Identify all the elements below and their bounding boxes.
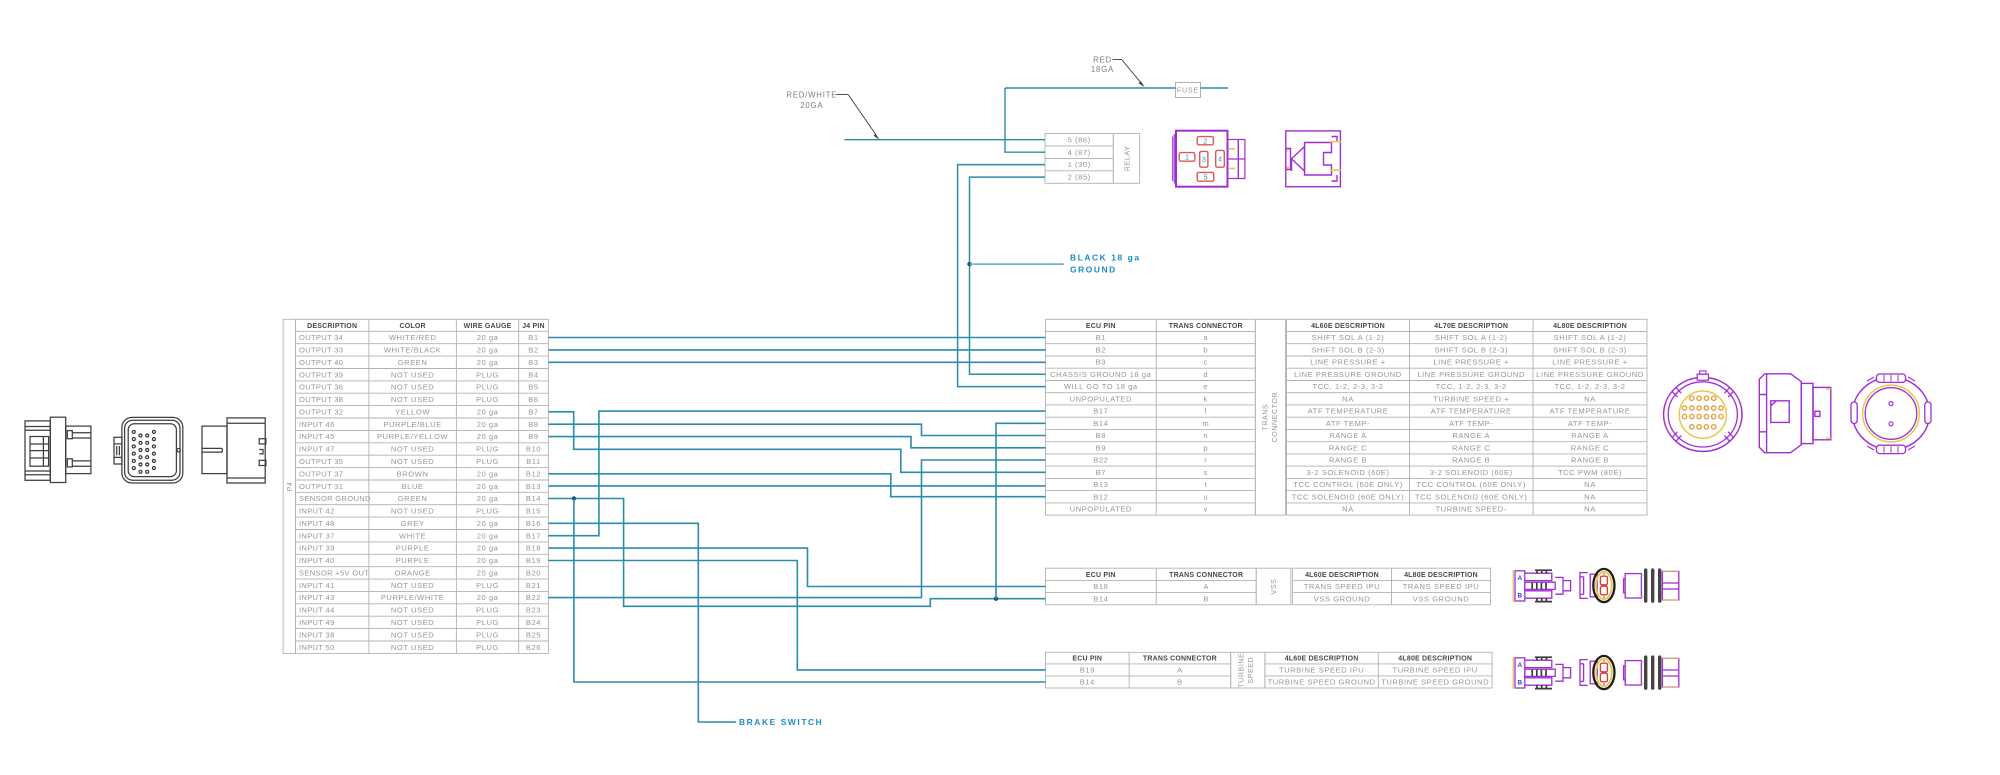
svg-text:B2: B2 [1096, 346, 1106, 355]
svg-text:OUTPUT 33: OUTPUT 33 [299, 346, 343, 355]
label RED/WHITE 20GA with leader arrow [786, 91, 879, 140]
wire B16 INPUT48 to brake switch [548, 523, 736, 722]
svg-text:PLUG: PLUG [476, 643, 499, 652]
svg-text:TCC, 1-2, 2-3, 3-2: TCC, 1-2, 2-3, 3-2 [1436, 382, 1507, 391]
svg-text:20 ga: 20 ga [477, 531, 499, 540]
svg-text:TCC SOLENOID (60E ONLY): TCC SOLENOID (60E ONLY) [1415, 492, 1528, 501]
svg-text:20 ga: 20 ga [477, 494, 499, 503]
fuse F1 [1176, 83, 1201, 98]
wire B1 OUTPUT34 to trans pin a [548, 337, 1045, 339]
svg-text:20 ga: 20 ga [477, 593, 499, 602]
svg-text:NOT USED: NOT USED [391, 630, 435, 639]
svg-text:PURPLE/WHITE: PURPLE/WHITE [381, 593, 445, 602]
svg-text:3-2 SOLENOID (60E): 3-2 SOLENOID (60E) [1430, 468, 1513, 477]
svg-text:ECU PIN: ECU PIN [1086, 572, 1116, 579]
svg-text:OUTPUT 38: OUTPUT 38 [299, 395, 343, 404]
svg-text:k: k [1204, 394, 1208, 403]
svg-text:BLACK 18 ga: BLACK 18 ga [1070, 252, 1141, 262]
label RED 18GA with leader arrow [1091, 55, 1145, 87]
svg-text:WIRE GAUGE: WIRE GAUGE [464, 323, 512, 330]
svg-text:B13: B13 [1093, 480, 1108, 489]
svg-text:3: 3 [1202, 155, 1206, 164]
svg-text:RANGE C: RANGE C [1452, 443, 1490, 452]
svg-text:RANGE A: RANGE A [1329, 431, 1367, 440]
table TURBINE SPEED connector [1046, 652, 1231, 688]
wire B2 OUTPUT33 to trans pin b [548, 349, 1045, 351]
svg-text:B22: B22 [526, 593, 541, 602]
svg-text:SENSOR GROUND: SENSOR GROUND [299, 494, 371, 503]
svg-text:FUSE: FUSE [1177, 88, 1199, 95]
rotated label cell TURBINE SPEED [1231, 652, 1265, 688]
svg-text:OUTPUT 31: OUTPUT 31 [299, 482, 343, 491]
svg-text:B18: B18 [1093, 582, 1108, 591]
svg-text:B5: B5 [528, 383, 538, 392]
label BLACK 18 ga GROUND [1070, 252, 1141, 274]
svg-text:1 (30): 1 (30) [1068, 160, 1091, 169]
svg-text:B: B [1177, 678, 1183, 687]
table ECU PIN / TRANS CONNECTOR (main trans connector) [1046, 319, 1256, 515]
svg-text:B3: B3 [1096, 358, 1106, 367]
svg-text:CHASSIS GROUND 18 ga: CHASSIS GROUND 18 ga [1050, 370, 1152, 379]
turbine speed sensor connector side view [1624, 655, 1679, 689]
svg-text:4L60E DESCRIPTION: 4L60E DESCRIPTION [1285, 656, 1359, 663]
svg-text:GREEN: GREEN [398, 494, 428, 503]
wire relay pin 1 (30) to ECU row e WILL GO TO 18 ga [958, 165, 1046, 387]
svg-text:LINE PRESSURE +: LINE PRESSURE + [1433, 358, 1509, 367]
connector J4 side view (left) [25, 417, 91, 482]
svg-text:OUTPUT 35: OUTPUT 35 [299, 457, 343, 466]
svg-text:LINE PRESSURE +: LINE PRESSURE + [1552, 358, 1628, 367]
svg-text:TRANS: TRANS [1260, 404, 1269, 431]
svg-text:m: m [1202, 419, 1209, 428]
svg-text:B12: B12 [1093, 492, 1108, 501]
svg-text:INPUT 37: INPUT 37 [299, 531, 335, 540]
svg-text:20 ga: 20 ga [477, 519, 499, 528]
svg-text:4L80E DESCRIPTION: 4L80E DESCRIPTION [1398, 656, 1472, 663]
wire RED 18ga fuse feed (to relay pin 4 87) [1005, 87, 1176, 89]
wire B14 branch up to trans pin m [996, 423, 1046, 598]
svg-text:SENSOR +5V OUT: SENSOR +5V OUT [299, 569, 369, 578]
svg-text:INPUT 41: INPUT 41 [299, 581, 335, 590]
svg-text:OUTPUT 36: OUTPUT 36 [299, 383, 343, 392]
VSS sensor connector rear view [1580, 569, 1615, 602]
svg-text:PLUG: PLUG [476, 370, 499, 379]
svg-text:WHITE/RED: WHITE/RED [389, 333, 437, 342]
svg-text:RANGE C: RANGE C [1329, 443, 1367, 452]
junction ground tap [967, 262, 971, 266]
svg-text:B1: B1 [528, 333, 538, 342]
svg-text:NOT USED: NOT USED [391, 445, 435, 454]
svg-text:TRANS SPEED IPU: TRANS SPEED IPU [1403, 582, 1480, 591]
svg-text:NOT USED: NOT USED [391, 581, 435, 590]
svg-text:p: p [1203, 443, 1208, 452]
svg-text:B23: B23 [526, 606, 541, 615]
junction B14 at VSS row [994, 597, 998, 601]
svg-text:2 (85): 2 (85) [1068, 173, 1091, 182]
svg-text:RANGE C: RANGE C [1571, 443, 1609, 452]
svg-text:INPUT 42: INPUT 42 [299, 507, 335, 516]
svg-text:INPUT 43: INPUT 43 [299, 593, 335, 602]
svg-text:B7: B7 [528, 407, 538, 416]
svg-text:DESCRIPTION: DESCRIPTION [307, 323, 357, 330]
svg-text:RANGE B: RANGE B [1452, 456, 1490, 465]
svg-text:20 ga: 20 ga [477, 346, 499, 355]
svg-text:BLUE: BLUE [402, 482, 424, 491]
wire fuse to battery stub [1201, 87, 1229, 89]
svg-text:B13: B13 [526, 482, 541, 491]
svg-text:B17: B17 [526, 531, 541, 540]
svg-text:B: B [1517, 592, 1522, 599]
svg-text:B17: B17 [1093, 407, 1108, 416]
svg-text:OUTPUT 39: OUTPUT 39 [299, 370, 343, 379]
svg-text:WHITE/BLACK: WHITE/BLACK [384, 346, 442, 355]
svg-text:SHIFT SOL A (1-2): SHIFT SOL A (1-2) [1435, 333, 1508, 342]
svg-text:UNPOPULATED: UNPOPULATED [1070, 505, 1132, 514]
svg-text:B26: B26 [526, 643, 541, 652]
svg-text:GROUND: GROUND [1070, 264, 1117, 274]
svg-text:PLUG: PLUG [476, 507, 499, 516]
svg-text:LINE PRESSURE +: LINE PRESSURE + [1310, 358, 1386, 367]
svg-text:ECU PIN: ECU PIN [1072, 656, 1102, 663]
svg-text:J4 PIN: J4 PIN [522, 323, 545, 330]
svg-text:TURBINE SPEED GROUND: TURBINE SPEED GROUND [1268, 678, 1376, 687]
svg-text:B8: B8 [1096, 431, 1106, 440]
svg-text:TURBINE SPEED +: TURBINE SPEED + [1433, 394, 1509, 403]
svg-text:BROWN: BROWN [397, 469, 429, 478]
svg-text:YELLOW: YELLOW [395, 407, 430, 416]
svg-text:PURPLE: PURPLE [396, 544, 430, 553]
svg-text:SHIFT SOL B (2-3): SHIFT SOL B (2-3) [1553, 346, 1627, 355]
table 4L60E / 4L70E / 4L80E descriptions [1287, 319, 1648, 515]
svg-text:e: e [1203, 382, 1208, 391]
svg-text:TURBINE SPEED GROUND: TURBINE SPEED GROUND [1381, 678, 1489, 687]
turbine speed sensor connector rear view [1580, 656, 1615, 689]
svg-text:NOT USED: NOT USED [391, 618, 435, 627]
wire B14 sensor ground main run to VSS pin B [548, 499, 1045, 607]
svg-text:PLUG: PLUG [476, 383, 499, 392]
svg-text:B9: B9 [1096, 443, 1106, 452]
svg-text:RED: RED [1093, 55, 1112, 64]
svg-text:u: u [1203, 492, 1208, 501]
svg-text:d: d [1203, 370, 1208, 379]
svg-text:20 ga: 20 ga [477, 544, 499, 553]
svg-text:PLUG: PLUG [476, 457, 499, 466]
svg-text:ATF TEMP-: ATF TEMP- [1449, 419, 1493, 428]
svg-text:NOT USED: NOT USED [391, 457, 435, 466]
relay label cell [1113, 134, 1139, 184]
svg-text:5 (86): 5 (86) [1068, 135, 1091, 144]
svg-text:20 ga: 20 ga [477, 469, 499, 478]
svg-text:ATF TEMPERATURE: ATF TEMPERATURE [1550, 407, 1631, 416]
connector table P4 (J4 pinout) [296, 319, 549, 653]
svg-text:B10: B10 [526, 445, 541, 454]
svg-text:INPUT 46: INPUT 46 [299, 420, 335, 429]
svg-text:B16: B16 [526, 519, 541, 528]
svg-text:v: v [1204, 505, 1208, 514]
wire RED/WHITE 20ga to relay pin 5 (86) [844, 139, 1045, 141]
trans connector side view [1759, 374, 1831, 453]
svg-text:4L60E DESCRIPTION: 4L60E DESCRIPTION [1311, 323, 1385, 330]
svg-text:GREY: GREY [401, 519, 425, 528]
svg-text:20 ga: 20 ga [477, 432, 499, 441]
svg-text:PLUG: PLUG [476, 630, 499, 639]
svg-text:ATF TEMP-: ATF TEMP- [1326, 419, 1370, 428]
svg-text:NA: NA [1584, 505, 1596, 514]
svg-text:l: l [1205, 407, 1207, 416]
table TURBINE SPEED 4L60E/4L80E descriptions [1265, 652, 1492, 688]
svg-text:20 ga: 20 ga [477, 556, 499, 565]
wire B13 OUTPUT31 to trans pin t [548, 485, 1045, 487]
svg-text:VSS GROUND: VSS GROUND [1314, 594, 1371, 603]
svg-text:WILL GO TO 18 ga: WILL GO TO 18 ga [1064, 382, 1138, 391]
svg-text:INPUT 44: INPUT 44 [299, 606, 335, 615]
svg-text:B19: B19 [1080, 666, 1095, 675]
svg-text:NOT USED: NOT USED [391, 383, 435, 392]
relay socket face view [1173, 131, 1245, 187]
svg-text:INPUT 45: INPUT 45 [299, 432, 335, 441]
svg-text:TCC SOLENOID (60E ONLY): TCC SOLENOID (60E ONLY) [1292, 492, 1405, 501]
svg-text:LINE PRESSURE GROUND: LINE PRESSURE GROUND [1417, 370, 1525, 379]
svg-text:4: 4 [1218, 155, 1222, 164]
svg-text:a: a [1203, 333, 1208, 342]
svg-text:ATF TEMPERATURE: ATF TEMPERATURE [1308, 407, 1389, 416]
connector J4 mating face view (24-pin) [114, 417, 183, 483]
svg-text:4 (87): 4 (87) [1068, 148, 1091, 157]
VSS sensor connector side view [1624, 568, 1679, 602]
svg-text:INPUT 49: INPUT 49 [299, 618, 335, 627]
svg-text:4L80E DESCRIPTION: 4L80E DESCRIPTION [1404, 572, 1478, 579]
svg-text:TURBINE: TURBINE [1237, 653, 1246, 688]
rotated label cell VSS [1256, 568, 1291, 605]
svg-text:4L80E DESCRIPTION: 4L80E DESCRIPTION [1553, 323, 1627, 330]
svg-text:B24: B24 [526, 618, 541, 627]
svg-text:ATF TEMP-: ATF TEMP- [1568, 419, 1612, 428]
wire B22 INPUT43 to trans pin r [548, 460, 1045, 598]
connector J4 rear view (right) [202, 418, 266, 483]
svg-text:4L60E DESCRIPTION: 4L60E DESCRIPTION [1305, 572, 1379, 579]
VSS harness connector side view [1513, 570, 1570, 602]
svg-text:ATF TEMPERATURE: ATF TEMPERATURE [1431, 407, 1512, 416]
junction B14 branch [572, 496, 576, 500]
svg-text:NOT USED: NOT USED [391, 643, 435, 652]
svg-text:n: n [1203, 431, 1208, 440]
svg-text:INPUT 38: INPUT 38 [299, 630, 335, 639]
svg-text:B11: B11 [526, 457, 541, 466]
svg-text:NA: NA [1342, 505, 1354, 514]
svg-text:TCC PWM (80E): TCC PWM (80E) [1558, 468, 1622, 477]
wire B14 branch to TURBINE pin B [574, 499, 1046, 683]
svg-text:PLUG: PLUG [476, 445, 499, 454]
turbine speed harness connector side view [1513, 657, 1570, 689]
svg-text:B14: B14 [526, 494, 541, 503]
svg-text:RANGE B: RANGE B [1329, 456, 1367, 465]
svg-text:s: s [1204, 468, 1208, 477]
svg-text:INPUT 40: INPUT 40 [299, 556, 335, 565]
svg-text:c: c [1204, 358, 1208, 367]
svg-text:B7: B7 [1096, 468, 1106, 477]
svg-text:INPUT 47: INPUT 47 [299, 445, 335, 454]
wire B12 OUTPUT37 to trans pin u [548, 474, 1045, 497]
wire B19 INPUT40 to TURBINE pin A [548, 561, 1045, 670]
svg-text:4L70E DESCRIPTION: 4L70E DESCRIPTION [1434, 323, 1508, 330]
svg-text:INPUT 48: INPUT 48 [299, 519, 335, 528]
table VSS 4L60E/4L80E descriptions [1293, 568, 1491, 605]
svg-text:PLUG: PLUG [476, 618, 499, 627]
svg-text:TURBINE SPEED IPU: TURBINE SPEED IPU [1393, 666, 1478, 675]
svg-text:r: r [1204, 456, 1207, 465]
leader to BLACK 18 ga GROUND label [970, 263, 1065, 265]
svg-text:TCC CONTROL (60E ONLY): TCC CONTROL (60E ONLY) [1293, 480, 1403, 489]
svg-text:GREEN: GREEN [398, 358, 428, 367]
svg-text:20GA: 20GA [800, 101, 823, 110]
svg-text:B15: B15 [526, 507, 541, 516]
svg-text:OUTPUT 37: OUTPUT 37 [299, 469, 343, 478]
svg-text:B: B [1517, 679, 1522, 686]
svg-text:TURBINE SPEED IPU: TURBINE SPEED IPU [1279, 666, 1364, 675]
svg-text:SHIFT SOL B (2-3): SHIFT SOL B (2-3) [1434, 346, 1508, 355]
wire B7 OUTPUT32 to trans pin s [548, 412, 1045, 473]
svg-text:RANGE A: RANGE A [1452, 431, 1490, 440]
svg-text:INPUT 50: INPUT 50 [299, 643, 335, 652]
svg-text:B6: B6 [528, 395, 538, 404]
P4 side label cell [283, 319, 295, 653]
svg-text:TURBINE SPEED-: TURBINE SPEED- [1435, 505, 1506, 514]
svg-text:B14: B14 [1080, 678, 1095, 687]
svg-text:t: t [1204, 480, 1207, 489]
svg-text:20 ga: 20 ga [477, 569, 499, 578]
svg-text:NOT USED: NOT USED [391, 370, 435, 379]
wire relay pin 2 (85) ground to ECU row d CHASSIS GROUND [970, 177, 1046, 374]
svg-text:B4: B4 [528, 370, 538, 379]
svg-text:PLUG: PLUG [476, 606, 499, 615]
svg-text:18GA: 18GA [1091, 65, 1114, 74]
svg-text:B21: B21 [526, 581, 541, 590]
svg-text:VSS GROUND: VSS GROUND [1413, 594, 1470, 603]
svg-text:20 ga: 20 ga [477, 333, 499, 342]
svg-text:SHIFT SOL A (1-2): SHIFT SOL A (1-2) [1312, 333, 1385, 342]
svg-text:B20: B20 [526, 569, 541, 578]
svg-text:B: B [1203, 594, 1209, 603]
svg-text:TCC CONTROL (60E ONLY): TCC CONTROL (60E ONLY) [1416, 480, 1526, 489]
svg-text:B9: B9 [528, 432, 538, 441]
svg-text:UNPOPULATED: UNPOPULATED [1070, 394, 1132, 403]
svg-text:B18: B18 [526, 544, 541, 553]
svg-text:TRANS CONNECTOR: TRANS CONNECTOR [1169, 572, 1243, 579]
svg-text:A: A [1517, 575, 1522, 582]
trans connector rear view (2-pin round) [1851, 374, 1931, 454]
svg-text:VSS: VSS [1269, 579, 1278, 595]
svg-text:ORANGE: ORANGE [394, 569, 430, 578]
svg-text:SHIFT SOL A (1-2): SHIFT SOL A (1-2) [1554, 333, 1627, 342]
svg-text:NA: NA [1342, 394, 1354, 403]
svg-text:PURPLE: PURPLE [396, 556, 430, 565]
svg-text:NOT USED: NOT USED [391, 606, 435, 615]
svg-text:BRAKE SWITCH: BRAKE SWITCH [739, 717, 823, 727]
svg-text:5: 5 [1203, 173, 1207, 182]
svg-text:b: b [1203, 346, 1208, 355]
svg-text:ECU PIN: ECU PIN [1086, 323, 1116, 330]
svg-text:NOT USED: NOT USED [391, 395, 435, 404]
svg-text:LINE PRESSURE GROUND: LINE PRESSURE GROUND [1536, 370, 1644, 379]
svg-text:TCC, 1-2, 2-3, 3-2: TCC, 1-2, 2-3, 3-2 [1554, 382, 1625, 391]
svg-text:TRANS CONNECTOR: TRANS CONNECTOR [1169, 323, 1243, 330]
svg-text:CONNECTOR: CONNECTOR [1270, 392, 1279, 443]
svg-text:SHIFT SOL B (2-3): SHIFT SOL B (2-3) [1311, 346, 1385, 355]
svg-text:RED/WHITE: RED/WHITE [786, 91, 837, 100]
svg-text:A: A [1177, 666, 1183, 675]
svg-text:PURPLE/BLUE: PURPLE/BLUE [383, 420, 441, 429]
svg-text:RANGE B: RANGE B [1571, 456, 1609, 465]
svg-text:TRANS SPEED IPU: TRANS SPEED IPU [1304, 582, 1381, 591]
svg-text:NA: NA [1584, 480, 1596, 489]
svg-text:1: 1 [1185, 153, 1189, 162]
svg-text:P4: P4 [285, 482, 294, 492]
svg-text:OUTPUT 34: OUTPUT 34 [299, 333, 343, 342]
svg-text:RANGE A: RANGE A [1571, 431, 1609, 440]
svg-text:B3: B3 [528, 358, 538, 367]
svg-text:20 ga: 20 ga [477, 482, 499, 491]
wire B18 INPUT39 to VSS pin A [548, 548, 1045, 586]
svg-text:B22: B22 [1093, 456, 1108, 465]
svg-text:OUTPUT 32: OUTPUT 32 [299, 407, 343, 416]
svg-text:20 ga: 20 ga [477, 420, 499, 429]
svg-text:COLOR: COLOR [399, 323, 425, 330]
svg-text:B25: B25 [526, 630, 541, 639]
svg-text:B19: B19 [526, 556, 541, 565]
svg-text:PURPLE/YELLOW: PURPLE/YELLOW [377, 432, 449, 441]
trans connector face view (20-pin round) [1664, 371, 1742, 452]
table VSS connector [1046, 568, 1257, 605]
wire B9 INPUT45 to trans pin p [548, 437, 1045, 448]
svg-text:RELAY: RELAY [1122, 146, 1131, 172]
svg-text:20 ga: 20 ga [477, 407, 499, 416]
svg-text:B1: B1 [1096, 333, 1106, 342]
wire B8 INPUT46 to trans pin n [548, 424, 1045, 435]
svg-text:WHITE: WHITE [399, 531, 426, 540]
svg-text:B8: B8 [528, 420, 538, 429]
svg-text:PLUG: PLUG [476, 581, 499, 590]
svg-text:B14: B14 [1093, 594, 1108, 603]
wire B3 OUTPUT40 to trans pin c [548, 361, 1045, 363]
svg-text:B2: B2 [528, 346, 538, 355]
svg-text:NOT USED: NOT USED [391, 507, 435, 516]
svg-text:PLUG: PLUG [476, 395, 499, 404]
wire B17 INPUT37 to trans pin l [548, 411, 1045, 536]
relay connector side view [1286, 131, 1341, 187]
svg-text:B12: B12 [526, 469, 541, 478]
svg-text:INPUT 39: INPUT 39 [299, 544, 335, 553]
wire relay pin 4 (87) from fuse [1005, 88, 1045, 152]
svg-text:3-2 SOLENOID (60E): 3-2 SOLENOID (60E) [1307, 468, 1390, 477]
svg-text:20 ga: 20 ga [477, 358, 499, 367]
svg-text:LINE PRESSURE GROUND: LINE PRESSURE GROUND [1294, 370, 1402, 379]
svg-text:2: 2 [1203, 136, 1207, 145]
svg-text:TRANS CONNECTOR: TRANS CONNECTOR [1143, 656, 1217, 663]
svg-text:B14: B14 [1093, 419, 1108, 428]
svg-text:OUTPUT 40: OUTPUT 40 [299, 358, 343, 367]
svg-text:A: A [1203, 582, 1209, 591]
svg-text:A: A [1517, 662, 1522, 669]
rotated label cell TRANS CONNECTOR [1255, 319, 1285, 515]
svg-text:NA: NA [1584, 394, 1596, 403]
svg-text:NA: NA [1584, 492, 1596, 501]
svg-text:TCC, 1-2, 2-3, 3-2: TCC, 1-2, 2-3, 3-2 [1312, 382, 1383, 391]
relay terminal table [1045, 134, 1113, 184]
svg-text:SPEED: SPEED [1246, 657, 1255, 684]
